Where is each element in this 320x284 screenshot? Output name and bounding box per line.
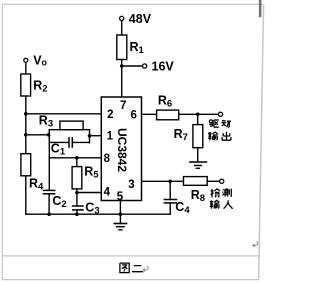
resistor R8 [184,177,208,186]
hanzi 出 (output) [222,132,231,141]
hanzi 输 (transmit) [208,132,218,140]
wire upper branch through R3 [49,129,89,131]
paragraph return mark after 图二 [143,266,148,271]
wire left rail to RC network [26,134,50,136]
frame left border [1,4,3,279]
wire ground stub below bottom rail [119,214,121,223]
paragraph return mark bottom right of schematic cell [253,242,258,247]
capacitor C2 plates [43,189,56,191]
wire pin 2 to left rail [26,113,102,115]
svg-text:5: 5 [117,191,124,203]
resistor R7 [193,125,203,148]
wire R7 top stub [197,114,199,124]
wire C4 top stub [169,181,171,199]
node R5 bottom / pin4 / C3 junction [75,191,79,195]
svg-text:48V: 48V [129,12,152,26]
resistor R1 [117,35,127,60]
frame right border (slightly skewed) [259,4,264,279]
wire R5 bottom to C3 [76,189,78,206]
resistor R6 [157,110,179,120]
wire bottom rail [26,213,170,215]
svg-text:4: 4 [104,186,111,198]
terminal circles [24,16,224,183]
wire pin 1 [90,135,102,137]
node RC right bar junction [88,134,92,138]
wire C3 bottom stub [76,210,78,214]
op-amp U1 UC3842 IC body [101,97,141,201]
hanzi 输 (transmit, second) [210,200,220,208]
node 16V tap junction [120,64,124,68]
svg-text:16V: 16V [152,60,175,74]
wire pin 4 [77,192,101,194]
ground below bottom rail [114,224,128,230]
wire R7 to ground [197,148,199,162]
resistor R3 [60,121,83,130]
wire C2 bottom stub [48,194,50,214]
caption hanzi 二 (two) [132,266,143,272]
capacitor C3 plates [72,205,84,207]
node C3 / bottom rail junction [75,212,79,216]
node pin8 / R5 junction [75,156,79,160]
svg-text:3: 3 [128,179,134,191]
svg-text:UC3842: UC3842 [115,128,129,172]
node left rail / RC feed junction [24,133,28,137]
wire 48V terminal to R1 and down to IC pin 7 [121,21,123,98]
node left rail / pin2 junction [24,112,28,116]
resistor R4 [21,154,31,176]
node Vo terminal [24,58,28,62]
ground below R7 [189,162,207,168]
hanzi 驱 (drive) [209,120,219,127]
node R6 / R7 junction [196,113,200,117]
frame top border [2,3,263,5]
wire C1 to right bar [73,141,90,143]
hanzi 测 (measure) [223,189,232,197]
wire 16V branch [122,65,143,67]
capacitor C1 plates [68,137,70,148]
svg-text:8: 8 [104,153,111,165]
hanzi 检 (detect) [211,189,221,198]
svg-text:7: 7 [120,100,126,112]
wire R6 to drive output terminal [179,113,219,115]
wire pin 3 to R8 [142,180,184,182]
node left bar of R3/C1 network down to C2 [48,130,50,191]
resistor R2 [21,74,31,96]
wire lower branch to C1 [49,141,68,143]
node right bar of R3/C1 network [89,130,91,143]
dark artifact bar top-right [259,0,262,17]
capacitor C4 plates [164,199,178,201]
resistor R5 [72,167,82,189]
wire pin 6 to R6 [142,113,157,115]
node drive output terminal [218,112,222,116]
hanzi 动 (move) [222,121,232,128]
caption hanzi 图 (figure) [120,263,129,273]
wire R8 to detect input terminal [207,180,219,182]
node 16V terminal [143,64,147,68]
wire pin 8 row [49,157,101,159]
svg-text:2: 2 [107,109,113,121]
wire R5 top stub [76,158,78,167]
svg-text:6: 6 [130,110,136,122]
node 48V terminal [120,16,124,20]
table frame borders [2,4,263,279]
node detect input terminal [220,179,224,183]
wire left rail Vo to bottom rail [25,62,27,214]
node pin5 / bottom rail junction [119,212,123,216]
frame bottom border [2,279,258,281]
wire C4 bottom stub [169,203,171,214]
wire pin 5 to bottom rail [119,201,121,215]
frame divider above caption row [2,255,259,257]
hanzi 入 (input) [224,200,233,209]
svg-text:1: 1 [107,131,114,143]
node RC left bar junction [47,133,51,137]
node pin3 / C4 junction [168,180,172,184]
node C2 / bottom rail junction [47,212,51,216]
